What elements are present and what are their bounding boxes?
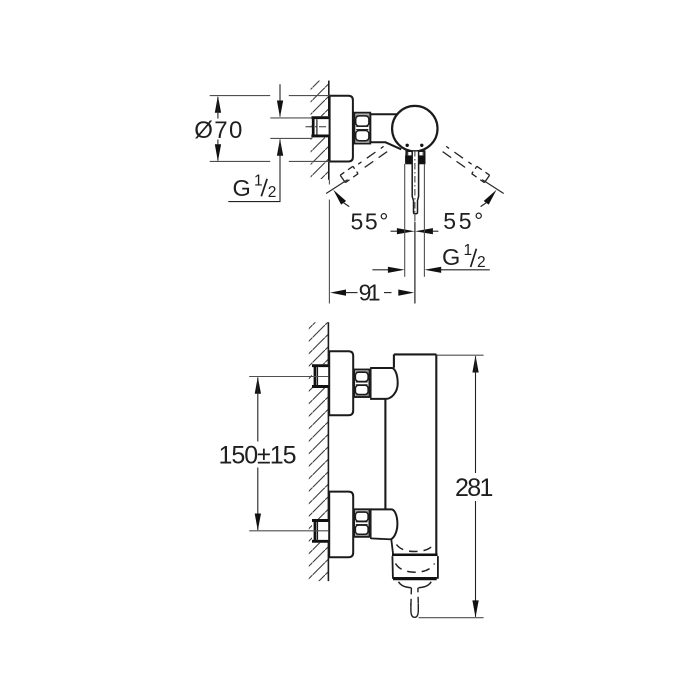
two screw dots on knob: [406, 144, 424, 147]
G1/2 label top left: [233, 172, 277, 201]
svg-text:1: 1: [464, 242, 473, 259]
svg-text:1: 1: [254, 172, 263, 189]
svg-text:2: 2: [268, 184, 277, 201]
crossing width arrows under lever: [391, 228, 439, 234]
spout joint thick line: [392, 553, 438, 556]
55° label right: [443, 208, 483, 234]
dashed lever swung left 55°: [358, 146, 387, 169]
upper union hex nut (front view): [354, 370, 369, 398]
wall hatching (front view): [309, 322, 328, 581]
Ø70 extension lines (escutcheon diameter): [210, 96, 330, 162]
mousseur cap: [392, 556, 438, 579]
150±15 dimension line with arrows: [255, 377, 261, 531]
hidden aerator dashed arc (above joint): [397, 545, 434, 552]
upper escutcheon (front view): [329, 351, 353, 415]
150±15 extension lines: [249, 377, 328, 531]
svg-text:G: G: [233, 175, 251, 201]
Ø70 dimension line with arrows: [215, 96, 221, 162]
upper supply pipe behind wall: [312, 364, 329, 388]
lower escutcheon (front view): [329, 492, 353, 558]
lever hub collar: [405, 151, 425, 163]
lever rod (top view, pointing down): [412, 152, 418, 214]
55° leader line right with arc arrow: [481, 180, 504, 207]
wall hatching (top view): [311, 81, 329, 179]
escutcheon / rosette (top view): [330, 96, 353, 162]
union hex nut (top view): [354, 113, 370, 144]
svg-text:55°: 55°: [351, 208, 389, 234]
svg-text:Ø70: Ø70: [194, 117, 242, 144]
water drop (dashed): [411, 588, 418, 618]
G1/2 outlet dimension arrows: [372, 267, 489, 273]
svg-text:2: 2: [477, 254, 486, 271]
150±15 label: [219, 442, 297, 470]
svg-text:91: 91: [359, 279, 381, 305]
concealed supply pipe behind wall (top view): [306, 116, 330, 137]
91 label: [359, 279, 381, 305]
G1/2 label bottom right: [442, 242, 486, 271]
wall face extension line down to 91 dimension: [328, 180, 330, 304]
281 dimension line with arrows: [472, 355, 478, 617]
dashed lever tip box right: [472, 166, 490, 182]
vertical centerline through lever: [414, 150, 416, 304]
lower supply pipe behind wall: [312, 519, 329, 543]
281 label: [455, 474, 494, 502]
lower union hex nut (front view): [354, 509, 369, 537]
faucet body: [385, 354, 436, 554]
upper union dome: [371, 367, 398, 400]
G1/2 supply extension lines (top left): [270, 118, 311, 138]
dashed lever swung right 55°: [443, 146, 472, 169]
lower union dome: [371, 508, 398, 554]
G1/2 supply dimension arrows (top left): [228, 84, 283, 201]
svg-text:281: 281: [455, 474, 494, 502]
281 extension lines: [419, 355, 484, 618]
knob circle Ø70 handle (top view): [392, 106, 437, 151]
svg-text:55°: 55°: [443, 208, 483, 234]
55° label left: [351, 208, 389, 234]
dashed lever tip box left: [340, 166, 358, 182]
svg-text:G: G: [442, 244, 460, 270]
hidden outlet dashed arc (below cap): [399, 582, 432, 588]
hidden aerator dashed arc (inside cap): [396, 564, 435, 573]
valve neck (top view): [370, 113, 401, 149]
G1/2 outlet extension lines: [405, 164, 425, 277]
55° leader line left with arc arrow: [326, 180, 349, 207]
svg-text:150±15: 150±15: [219, 442, 297, 470]
wall face line (top view): [328, 81, 330, 180]
wall face line (front view): [327, 322, 329, 581]
91 dimension line: [330, 290, 414, 296]
Ø70 label: [194, 117, 242, 144]
